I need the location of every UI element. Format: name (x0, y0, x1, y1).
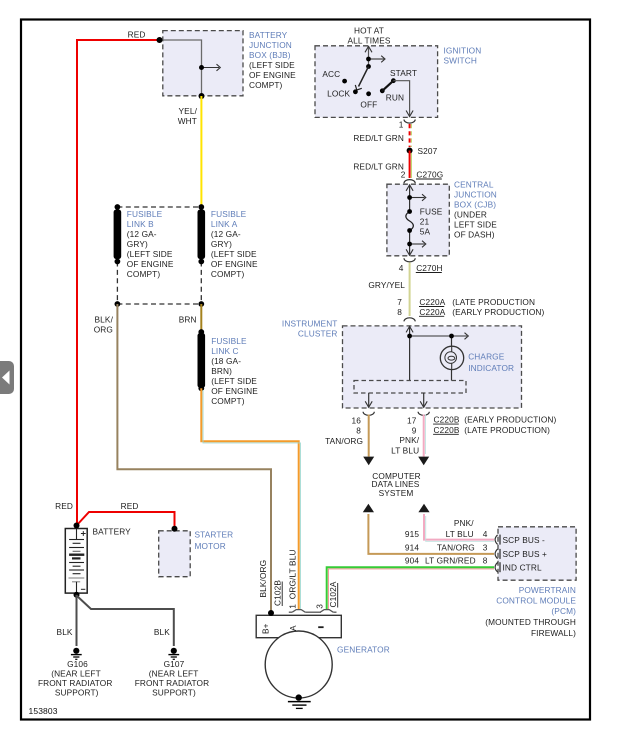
svg-text:POWERTRAIN: POWERTRAIN (519, 585, 576, 595)
node harness bottom-right (198, 301, 204, 307)
connector cup C270G (404, 180, 415, 184)
wire RED battery to BJB (77, 40, 159, 525)
svg-text:G106: G106 (67, 659, 88, 669)
svg-text:RED: RED (55, 501, 73, 511)
label BLK/ORG (vertical run) (94, 314, 114, 334)
svg-text:A: A (288, 625, 298, 631)
svg-text:IGNITION: IGNITION (444, 46, 482, 56)
wire ignition feed with up arrow (365, 46, 385, 66)
svg-text:C220A: C220A (419, 307, 445, 317)
generator ground (288, 694, 311, 708)
svg-text:LINK A: LINK A (211, 219, 238, 229)
node battery + terminal (74, 523, 80, 529)
svg-text:C102A: C102A (328, 581, 338, 607)
PCM pin socket 4 (495, 535, 500, 545)
svg-text:OF ENGINE: OF ENGINE (211, 259, 258, 269)
svg-text:RED/LT GRN: RED/LT GRN (353, 133, 404, 143)
svg-text:LEFT SIDE: LEFT SIDE (454, 220, 497, 230)
wire ORG/LT BLU (link C to generator pin 1) (201, 388, 300, 609)
svg-text:COMPT): COMPT) (127, 269, 161, 279)
svg-text:LINK B: LINK B (127, 219, 154, 229)
svg-text:7: 7 (397, 297, 402, 307)
svg-text:SYSTEM: SYSTEM (379, 488, 414, 498)
charge indicator lamp U1 (440, 346, 463, 369)
fusible link C (198, 333, 206, 388)
svg-text:BRN): BRN) (211, 366, 232, 376)
connector C220A label (early) (419, 307, 545, 317)
node BJB output (199, 93, 205, 99)
svg-text:4: 4 (399, 263, 404, 273)
ground G106 (71, 648, 82, 660)
svg-text:(UNDER: (UNDER (454, 210, 487, 220)
svg-text:START: START (390, 68, 417, 78)
wire BLK/ORG (link B to generator B+) (117, 304, 271, 613)
svg-text:LT BLU: LT BLU (446, 529, 474, 539)
svg-text:FUSIBLE: FUSIBLE (211, 209, 247, 219)
node generator B+ (268, 610, 274, 616)
svg-text:3: 3 (314, 604, 324, 609)
svg-text:G107: G107 (164, 659, 185, 669)
node link C bottom (198, 385, 204, 391)
svg-text:21: 21 (420, 217, 430, 227)
svg-text:153803: 153803 (29, 706, 58, 716)
connector C102A label (rotated) (328, 581, 338, 607)
label G107 (135, 659, 210, 697)
label CENTRAL JUNCTION BOX (CJB) (454, 180, 497, 240)
svg-text:904: 904 (405, 556, 419, 566)
svg-text:(LEFT SIDE: (LEFT SIDE (211, 376, 257, 386)
svg-text:INSTRUMENT: INSTRUMENT (282, 318, 338, 328)
svg-text:CENTRAL: CENTRAL (454, 180, 494, 190)
svg-text:LINK C: LINK C (211, 346, 238, 356)
svg-text:CLUSTER: CLUSTER (298, 329, 338, 339)
svg-text:FUSIBLE: FUSIBLE (127, 209, 163, 219)
svg-text:(EARLY PRODUCTION): (EARLY PRODUCTION) (464, 415, 556, 425)
connector C270G label (416, 170, 443, 180)
svg-text:(LATE PRODUCTION): (LATE PRODUCTION) (464, 425, 550, 435)
wire GRY/YEL (409, 263, 411, 317)
svg-text:(EARLY PRODUCTION): (EARLY PRODUCTION) (452, 307, 544, 317)
wire TAN/ORG (from data lines to PCM) (363, 504, 494, 554)
powertrain control module (PCM) box (498, 527, 576, 580)
svg-text:(LATE PRODUCTION: (LATE PRODUCTION (452, 297, 535, 307)
connector cup C270H (404, 258, 415, 262)
svg-text:IND CTRL: IND CTRL (503, 563, 542, 573)
wire START output (393, 81, 413, 117)
svg-text:C220A: C220A (419, 297, 445, 307)
label CHARGE INDICATOR (468, 352, 514, 373)
svg-text:ALL TIMES: ALL TIMES (347, 36, 390, 46)
connector C220B label (late) (433, 425, 550, 435)
svg-text:(PCM): (PCM) (551, 606, 576, 616)
svg-text:9: 9 (412, 425, 417, 435)
svg-text:LT GRN/RED: LT GRN/RED (425, 556, 476, 566)
svg-text:C270G: C270G (416, 170, 443, 180)
svg-text:(NEAR LEFT: (NEAR LEFT (149, 669, 199, 679)
svg-text:8: 8 (483, 556, 488, 566)
node START contact (391, 78, 396, 83)
ground G107 (168, 648, 179, 660)
connector cup pin 1 (404, 120, 415, 124)
PCM pin socket 3 (495, 549, 500, 559)
svg-text:(12 GA-: (12 GA- (211, 229, 241, 239)
svg-text:SWITCH: SWITCH (444, 56, 477, 66)
svg-text:OF ENGINE: OF ENGINE (249, 70, 296, 80)
wire BRN (to link C) (200, 304, 202, 333)
svg-text:SCP BUS +: SCP BUS + (503, 549, 548, 559)
svg-text:BATTERY: BATTERY (249, 30, 288, 40)
svg-text:SUPPORT): SUPPORT) (55, 687, 99, 697)
connector cup C220B pin17 (418, 412, 429, 416)
prev-page nav button (0, 361, 14, 394)
svg-text:ORG: ORG (94, 324, 113, 334)
ignition contact RUN-START bar (382, 81, 394, 92)
svg-text:GRY/YEL: GRY/YEL (368, 280, 405, 290)
wire BLK (battery to G107) (77, 596, 174, 647)
svg-text:(LEFT SIDE: (LEFT SIDE (211, 249, 257, 259)
svg-text:HOT AT: HOT AT (354, 26, 384, 36)
label PNK/LT BLU (391, 435, 420, 455)
svg-text:PNK/: PNK/ (454, 518, 474, 528)
svg-text:5A: 5A (420, 227, 431, 237)
label BATTERY JUNCTION BOX (BJB) (249, 30, 296, 90)
node link A bottom (198, 259, 204, 265)
svg-text:LOCK: LOCK (327, 88, 350, 98)
svg-text:2: 2 (401, 170, 406, 180)
generator connector humps C102 (289, 610, 337, 613)
svg-text:915: 915 (405, 529, 419, 539)
svg-text:JUNCTION: JUNCTION (454, 190, 497, 200)
svg-text:OFF: OFF (360, 99, 377, 109)
svg-text:OF DASH): OF DASH) (454, 230, 495, 240)
node IC j1 (407, 334, 412, 339)
fusible link B (114, 210, 122, 260)
svg-text:BLK/: BLK/ (95, 314, 114, 324)
svg-text:17: 17 (407, 415, 417, 425)
svg-text:S207: S207 (418, 146, 438, 156)
node ignition feed junction (366, 57, 371, 62)
svg-text:YEL/: YEL/ (179, 106, 198, 116)
svg-text:COMPT): COMPT) (211, 396, 245, 406)
node harness bottom-left (115, 301, 121, 307)
svg-text:COMPT): COMPT) (249, 80, 283, 90)
fusible link harness dashed frame (117, 207, 201, 304)
label IGNITION SWITCH (444, 46, 482, 66)
battery BAT1 (65, 529, 87, 594)
node fuse bottom (407, 228, 412, 233)
svg-text:CONTROL MODULE: CONTROL MODULE (496, 596, 576, 606)
label FUSE 21 5A (420, 207, 443, 237)
generator minus terminal mark (318, 626, 323, 628)
label FUSIBLE LINK B (127, 209, 174, 279)
svg-text:8: 8 (356, 425, 361, 435)
svg-text:BRN: BRN (179, 314, 197, 324)
node ignition rotor pivot (366, 64, 371, 69)
connector cup C220B pin16 (363, 412, 374, 416)
PCM pin socket 8 (495, 562, 500, 572)
splice S207 (407, 148, 413, 154)
node link B bottom (115, 259, 121, 265)
svg-text:(NEAR LEFT: (NEAR LEFT (51, 669, 101, 679)
ignition rotor arm to LOCK (355, 67, 368, 91)
svg-text:OF ENGINE: OF ENGINE (211, 386, 258, 396)
node BJB feed (157, 37, 163, 43)
svg-text:RUN: RUN (386, 93, 404, 103)
svg-text:OF ENGINE: OF ENGINE (127, 259, 174, 269)
wire RED/LT GRN dashed (pin1 to S207) (410, 124, 412, 147)
label HOT AT ALL TIMES (347, 26, 390, 46)
svg-text:JUNCTION: JUNCTION (249, 40, 292, 50)
ignition switch box (315, 46, 438, 118)
svg-text:(LEFT SIDE: (LEFT SIDE (249, 60, 295, 70)
node BJB internal junction (199, 65, 204, 70)
node link B top (115, 204, 121, 210)
svg-text:RED: RED (121, 501, 139, 511)
wire YEL/WHT (200, 96, 202, 207)
IC internal wire (406, 326, 468, 380)
CJB internal wire with arrows (406, 185, 426, 256)
connector C220A label (late) (419, 297, 535, 307)
svg-text:4: 4 (483, 529, 488, 539)
svg-text:RED/LT GRN: RED/LT GRN (353, 161, 404, 171)
label INSTRUMENT CLUSTER (282, 318, 338, 338)
wire RED/LT GRN solid (S207 to C270G) (410, 151, 412, 179)
wire BJB internal bus (159, 40, 220, 96)
node LOCK contact (353, 89, 358, 94)
connector C220B label (early) (433, 415, 556, 425)
IC bus bar (354, 381, 466, 394)
fusible link A (198, 210, 206, 260)
svg-text:FUSE: FUSE (420, 207, 443, 217)
svg-text:BOX (CJB): BOX (CJB) (454, 200, 496, 210)
svg-text:(18 GA-: (18 GA- (211, 356, 241, 366)
svg-text:GRY): GRY) (127, 239, 148, 249)
svg-text:(LEFT SIDE: (LEFT SIDE (127, 249, 173, 259)
svg-text:1: 1 (399, 120, 404, 130)
label POWERTRAIN CONTROL MODULE (PCM) (485, 585, 576, 638)
svg-text:BLK: BLK (57, 627, 73, 637)
node starter feed (172, 526, 178, 532)
node ACC contact (342, 79, 347, 84)
connector cup C220A (404, 318, 415, 322)
connector C270H label (416, 263, 443, 273)
connector C102B label (rotated) (273, 580, 283, 606)
svg-text:SCP BUS -: SCP BUS - (503, 535, 546, 545)
wire LT GRN/RED (PCM to generator) (327, 567, 494, 609)
starter motor box (159, 531, 191, 577)
svg-text:1 ORG/LT BLU: 1 ORG/LT BLU (288, 549, 298, 608)
label STARTER MOTOR (195, 529, 234, 551)
label YEL/WHT (178, 106, 198, 126)
svg-text:TAN/ORG: TAN/ORG (325, 436, 363, 446)
svg-text:BOX (BJB): BOX (BJB) (249, 50, 291, 60)
svg-text:SUPPORT): SUPPORT) (152, 687, 196, 697)
svg-text:3: 3 (483, 542, 488, 552)
svg-text:LT BLU: LT BLU (391, 446, 419, 456)
node fuse top (407, 209, 412, 214)
svg-text:C220B: C220B (434, 415, 460, 425)
wire PNK/LT BLU (from data lines to PCM) (418, 504, 494, 542)
svg-text:BATTERY: BATTERY (93, 527, 132, 537)
svg-text:C102B: C102B (273, 580, 283, 606)
svg-text:GENERATOR: GENERATOR (337, 645, 390, 655)
svg-text:FUSIBLE: FUSIBLE (211, 336, 247, 346)
central junction box (CJB) (387, 184, 449, 256)
svg-text:MOTOR: MOTOR (195, 541, 226, 551)
svg-text:16: 16 (352, 415, 362, 425)
svg-text:C220B: C220B (434, 425, 460, 435)
wire TAN/ORG (to data lines) (363, 415, 374, 466)
svg-text:INDICATOR: INDICATOR (468, 363, 514, 373)
svg-text:ACC: ACC (322, 69, 340, 79)
wire PNK/LT BLU (to data lines) (418, 415, 429, 466)
svg-text:STARTER: STARTER (195, 529, 234, 539)
generator body (256, 615, 341, 698)
svg-text:WHT: WHT (178, 116, 197, 126)
wire BLK (battery to G106) (76, 595, 78, 646)
svg-text:GRY): GRY) (211, 239, 232, 249)
svg-text:8: 8 (397, 307, 402, 317)
node link C top (198, 329, 204, 335)
svg-text:PNK/: PNK/ (399, 435, 419, 445)
instrument cluster box (343, 326, 522, 408)
node link A top (198, 204, 204, 210)
svg-text:C270H: C270H (416, 263, 442, 273)
node CJB j1 (407, 195, 412, 200)
svg-text:BLK: BLK (154, 627, 170, 637)
svg-text:(12 GA-: (12 GA- (127, 229, 157, 239)
label COMPUTER DATA LINES SYSTEM (372, 471, 421, 498)
label FUSIBLE LINK A (211, 209, 258, 279)
wire RED (battery to starter) (77, 512, 175, 528)
svg-text:(MOUNTED THROUGH: (MOUNTED THROUGH (485, 617, 576, 627)
svg-text:B+: B+ (260, 623, 270, 634)
node CJB j2 (407, 242, 412, 247)
svg-text:FIREWALL): FIREWALL) (531, 628, 576, 638)
node battery - terminal (74, 592, 80, 598)
svg-text:COMPT): COMPT) (211, 269, 245, 279)
svg-text:914: 914 (405, 542, 419, 552)
svg-text:RED: RED (128, 30, 146, 40)
label G106 (38, 659, 113, 697)
svg-text:CHARGE: CHARGE (468, 352, 505, 362)
node IC j2 (449, 334, 454, 339)
fuse 21 element (406, 212, 414, 231)
IC output wires with arrows (365, 393, 427, 407)
label FUSIBLE LINK C (211, 336, 258, 406)
battery junction box (BJB) (163, 31, 243, 96)
node OFF contact (366, 91, 371, 96)
svg-text:TAN/ORG: TAN/ORG (437, 542, 475, 552)
node RUN contact (380, 88, 385, 93)
label PNK/LT BLU (PCM) (446, 518, 475, 539)
svg-text:BLK/ORG: BLK/ORG (258, 560, 268, 598)
